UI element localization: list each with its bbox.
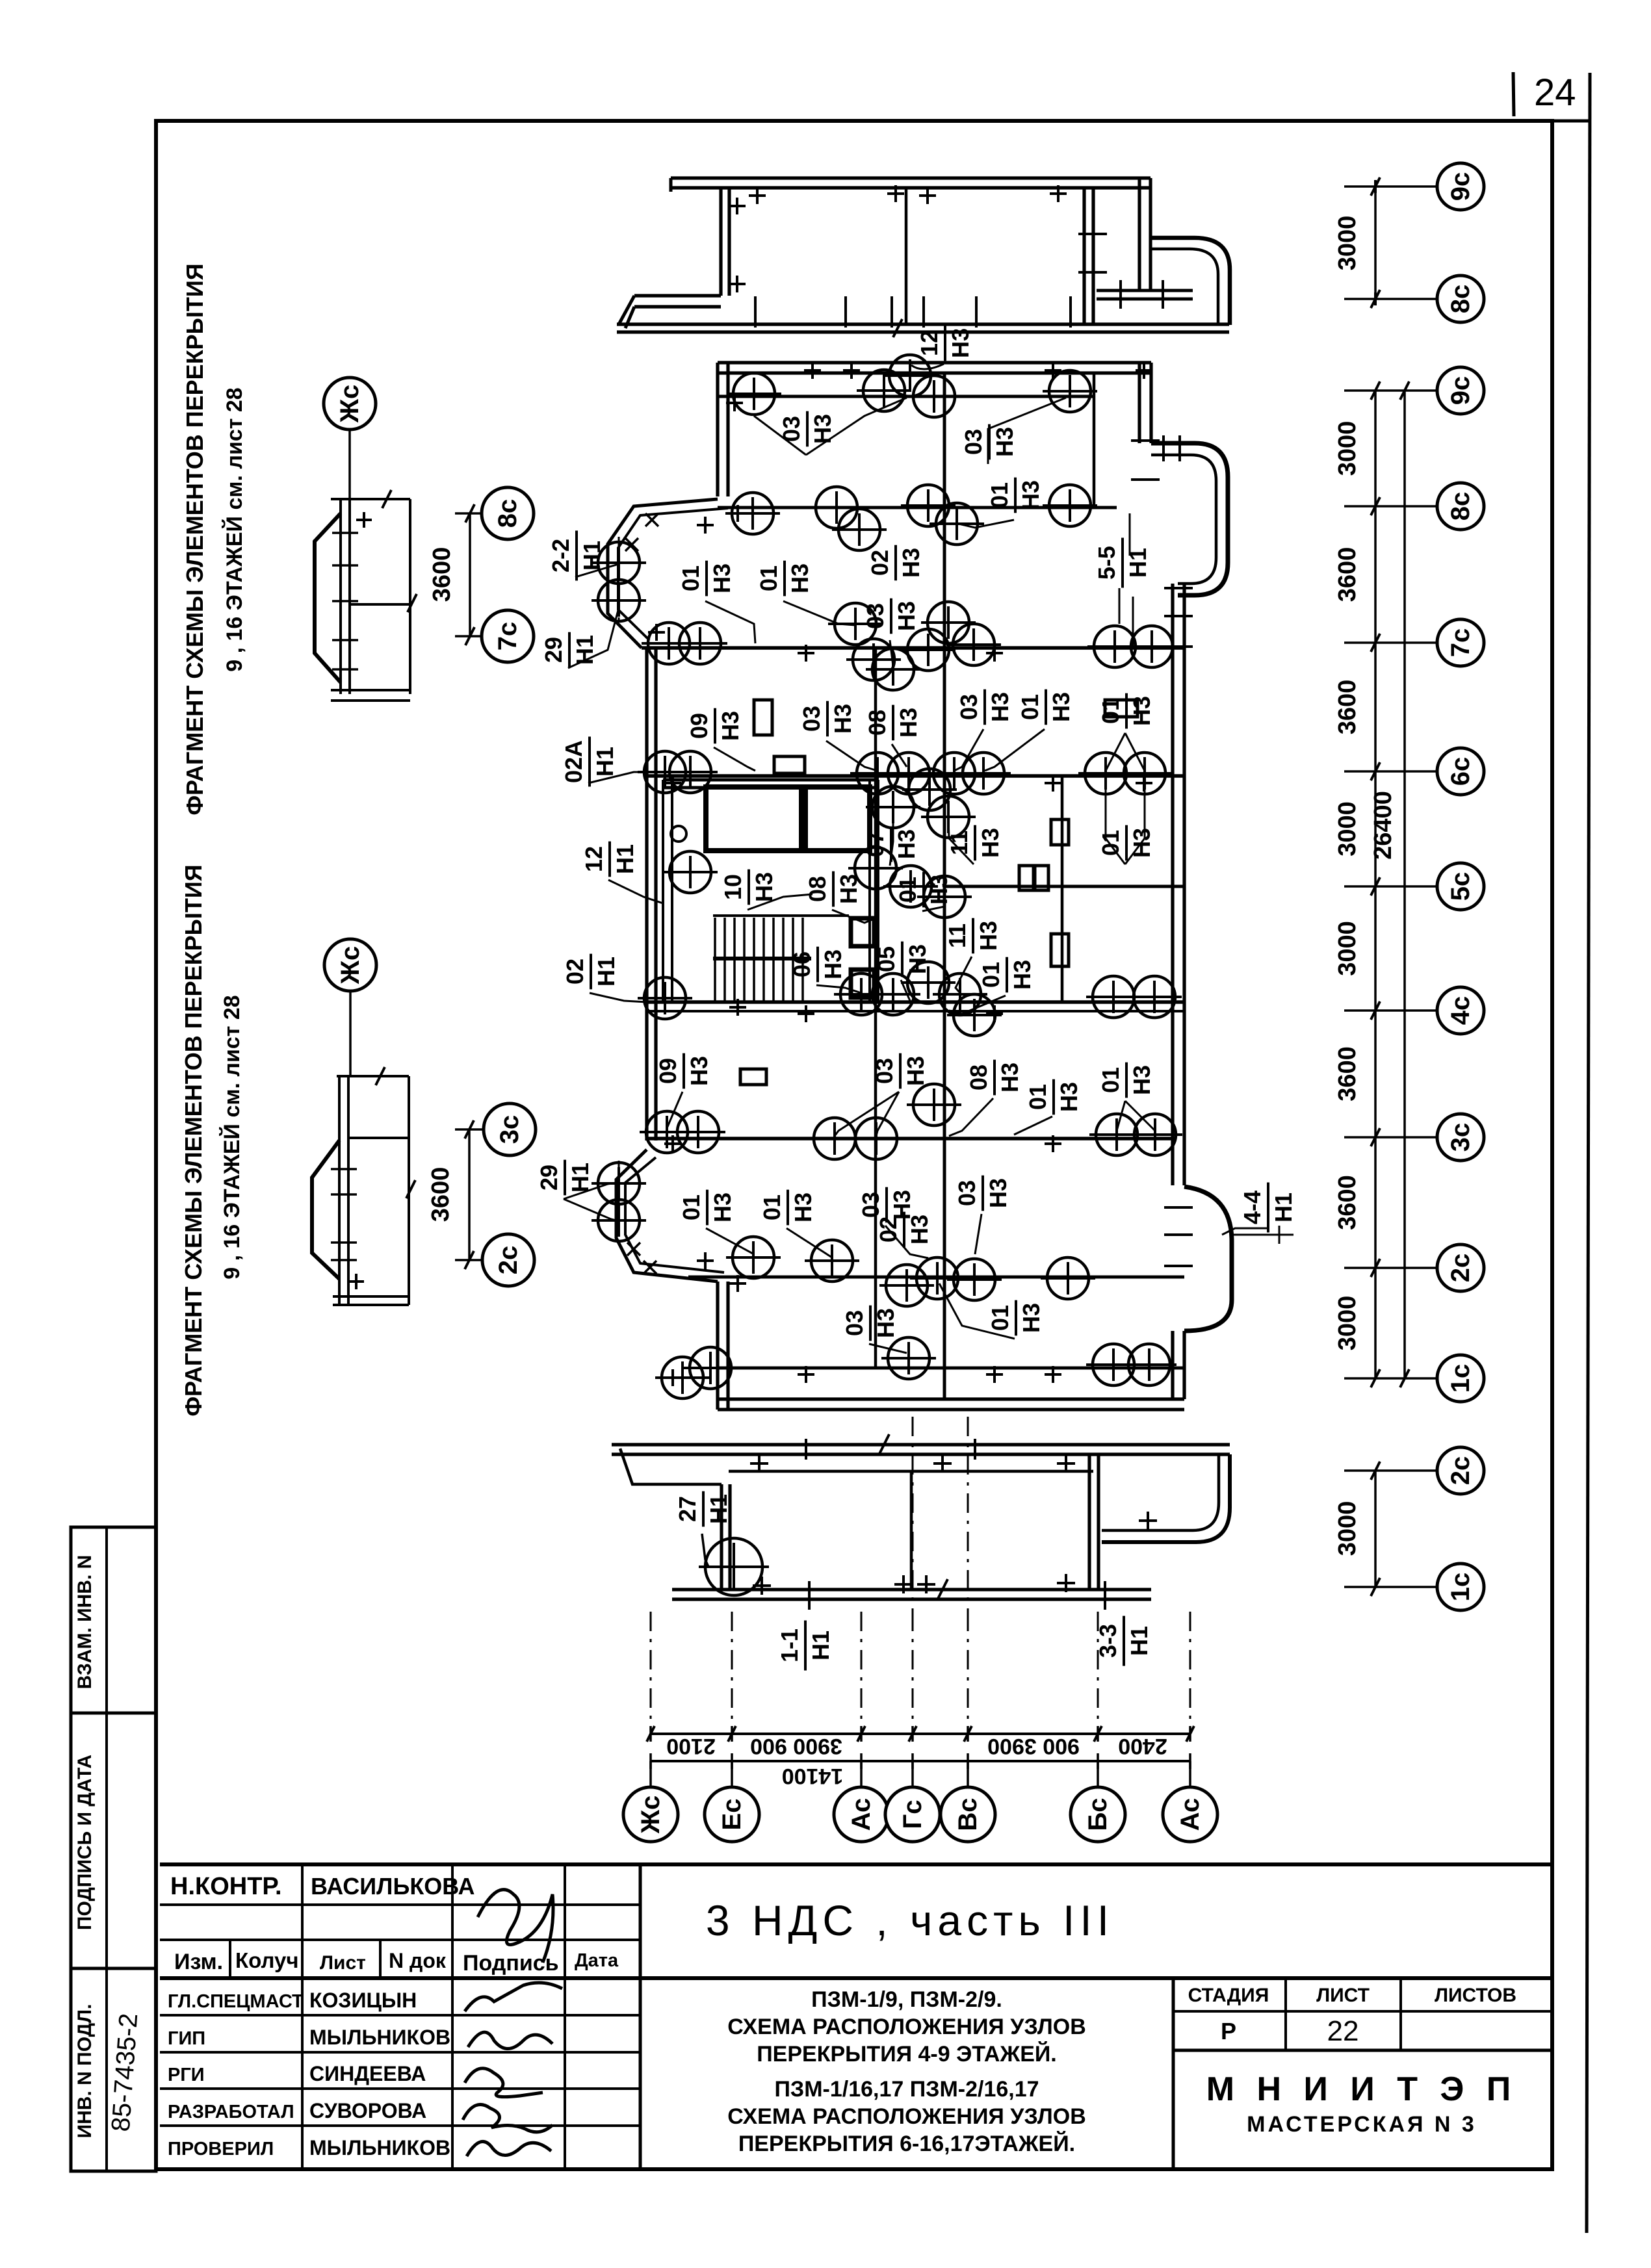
label 5-5/Н1 [1093, 538, 1151, 588]
top section left wall [721, 188, 729, 296]
axis circle Жс [623, 1787, 678, 1842]
axis circle 8c top fragment [1437, 276, 1484, 322]
svg-text:М Н И И Т Э П: М Н И И Т Э П [1206, 2070, 1517, 2108]
label 03/Н3 [960, 424, 1018, 460]
svg-text:Н1: Н1 [705, 1494, 732, 1524]
svg-text:03: 03 [960, 429, 987, 455]
svg-text:03: 03 [954, 1180, 980, 1206]
page number tick [1513, 72, 1514, 116]
svg-text:ФРАГМЕНТ СХЕМЫ ЭЛЕМЕНТОВ ПЕРЕК: ФРАГМЕНТ СХЕМЫ ЭЛЕМЕНТОВ ПЕРЕКРЫТИЯ [181, 263, 208, 815]
drawing frame border [156, 121, 1552, 2169]
svg-text:2100: 2100 [666, 1734, 716, 1759]
label 01/Н3 [987, 1300, 1045, 1336]
label 01/Н3 [1024, 1079, 1082, 1115]
svg-text:Н3: Н3 [686, 1056, 712, 1086]
svg-text:05: 05 [873, 946, 900, 972]
svg-text:Н3: Н3 [898, 548, 924, 578]
svg-text:03: 03 [862, 603, 889, 629]
label 01/Н3 [759, 1190, 816, 1226]
svg-text:Н3: Н3 [926, 875, 952, 905]
axis circle 8c [1437, 483, 1484, 530]
axis circle Вс [941, 1787, 995, 1842]
svg-text:Н3: Н3 [872, 1308, 899, 1338]
label 01/Н3 [755, 561, 813, 597]
bottom dim lines [651, 1733, 1190, 1735]
wall row 9c [718, 395, 1094, 398]
svg-text:8c: 8c [1446, 492, 1475, 521]
fragment 1 chamfer [315, 513, 341, 682]
label 03/Н3 [871, 1053, 929, 1089]
axis leader 4c [1344, 1009, 1437, 1012]
svg-text:3c: 3c [1446, 1123, 1475, 1152]
svg-text:Ес: Ес [718, 1799, 746, 1831]
svg-text:Дата: Дата [575, 1950, 619, 1971]
svg-text:Н1: Н1 [591, 747, 618, 777]
svg-text:Н3: Н3 [1018, 1303, 1045, 1333]
fragment 2 axis Жс [324, 939, 376, 991]
axis circle 9c top fragment [1437, 163, 1484, 210]
axis leader 1c [1344, 1586, 1437, 1588]
leader lines [806, 398, 907, 455]
svg-text:Н3: Н3 [985, 1178, 1011, 1208]
svg-text:07: 07 [862, 831, 889, 857]
label 01/Н3 [1097, 1063, 1155, 1098]
svg-text:01: 01 [1097, 1067, 1124, 1093]
label 11/Н3 [946, 825, 1004, 861]
interior vertical x1683 [1093, 374, 1096, 508]
label 08/Н3 [965, 1060, 1023, 1096]
svg-text:Н3: Н3 [751, 872, 777, 902]
axis circle Ес [705, 1787, 759, 1842]
label 29/Н1 [536, 1160, 593, 1196]
svg-text:Н3: Н3 [790, 1192, 816, 1222]
svg-text:24: 24 [1534, 71, 1576, 114]
svg-text:Жс: Жс [335, 385, 364, 423]
label 01/Н3 [1097, 825, 1155, 861]
svg-text:01: 01 [978, 962, 1004, 988]
svg-text:26400: 26400 [1370, 791, 1397, 860]
bottom section ticks [753, 1577, 771, 1595]
svg-text:Н3: Н3 [1128, 828, 1155, 858]
svg-text:3 НДС , часть III: 3 НДС , часть III [706, 1896, 1114, 1944]
axis leader 3c [1344, 1136, 1437, 1139]
svg-text:ПЗМ-1/16,17 ПЗМ-2/16,17: ПЗМ-1/16,17 ПЗМ-2/16,17 [774, 2077, 1039, 2102]
label 4-4/Н1 [1239, 1183, 1297, 1233]
label 01/Н3 [677, 561, 735, 597]
label 12/Н3 [916, 326, 974, 361]
label 07/Н3 [862, 827, 920, 862]
svg-text:СХЕМА РАСПОЛОЖЕНИЯ УЗЛОВ: СХЕМА РАСПОЛОЖЕНИЯ УЗЛОВ [727, 2104, 1086, 2129]
svg-text:Н1: Н1 [1270, 1192, 1297, 1222]
svg-text:Н3: Н3 [987, 692, 1013, 722]
svg-text:3600: 3600 [1334, 1175, 1361, 1230]
svg-text:11: 11 [946, 831, 972, 855]
svg-text:Н3: Н3 [975, 921, 1002, 951]
axis circle 1c [1437, 1355, 1484, 1402]
svg-text:Ас: Ас [1176, 1798, 1204, 1831]
svg-text:3с: 3с [495, 1115, 524, 1144]
svg-text:1c: 1c [1446, 1364, 1475, 1393]
svg-text:Н3: Н3 [893, 829, 920, 859]
svg-text:ГЛ.СПЕЦМАСТ: ГЛ.СПЕЦМАСТ [168, 1991, 304, 2012]
axis circle 2c bottom fragment [1437, 1447, 1484, 1494]
svg-text:СТАДИЯ: СТАДИЯ [1188, 1985, 1269, 2006]
svg-text:3900 900: 3900 900 [750, 1734, 842, 1759]
label 02/Н3 [875, 1212, 933, 1248]
svg-text:Н3: Н3 [835, 874, 862, 904]
svg-text:МАСТЕРСКАЯ N 3: МАСТЕРСКАЯ N 3 [1247, 2112, 1477, 2137]
section marks 1-1 3-3 [776, 1621, 834, 1671]
svg-text:Н1: Н1 [1126, 1626, 1152, 1656]
svg-text:Н1: Н1 [593, 957, 619, 986]
svg-text:ВАСИЛЬКОВА: ВАСИЛЬКОВА [311, 1873, 475, 1900]
fragment 1 walls [331, 498, 410, 500]
svg-text:01: 01 [755, 565, 782, 591]
svg-text:Н3: Н3 [895, 708, 922, 738]
svg-text:Н3: Н3 [996, 1063, 1023, 1092]
chamfer axis lines [618, 537, 620, 626]
svg-text:3600: 3600 [1334, 547, 1361, 602]
axis leader 8c [1344, 298, 1437, 300]
svg-text:Н3: Н3 [786, 563, 813, 593]
svg-text:02: 02 [866, 550, 893, 576]
svg-text:8с: 8с [493, 499, 522, 528]
svg-text:Жс: Жс [636, 1796, 665, 1834]
axis leader 9c [1344, 185, 1437, 188]
axis leader 9c [1344, 389, 1437, 392]
svg-text:01: 01 [894, 877, 921, 903]
svg-text:1c: 1c [1446, 1573, 1475, 1602]
label 09/Н3 [686, 708, 744, 744]
label 01/Н3 [978, 957, 1035, 993]
svg-text:8c: 8c [1446, 285, 1475, 314]
label 29/Н1 [540, 632, 598, 668]
top section top wall [671, 178, 1150, 188]
bottom section outline [612, 1445, 1230, 1454]
svg-text:01: 01 [678, 1194, 705, 1220]
svg-text:12: 12 [916, 330, 942, 356]
svg-text:01: 01 [1097, 698, 1124, 724]
wall 5c partial [944, 885, 1184, 888]
label 2-2/Н1 [547, 531, 605, 581]
stair flight hatch [713, 916, 849, 1001]
axis circle Ас [1163, 1787, 1217, 1842]
svg-text:2c: 2c [1446, 1456, 1475, 1486]
svg-text:3600: 3600 [1334, 1046, 1361, 1102]
svg-text:Лист: Лист [320, 1952, 366, 1974]
svg-text:Ас: Ас [847, 1798, 876, 1831]
vent blocks [754, 700, 772, 735]
fragment 2 ticks [331, 1168, 357, 1170]
axis circle 7c [1437, 619, 1484, 666]
svg-text:Н3: Н3 [947, 328, 974, 358]
main dim line with ticks [1374, 391, 1377, 1378]
top section right wall [1084, 188, 1093, 324]
top section ticks [749, 187, 766, 204]
svg-text:Н3: Н3 [1017, 480, 1044, 510]
svg-text:Гс: Гс [898, 1800, 927, 1829]
svg-text:Н3: Н3 [991, 427, 1018, 457]
label 01/Н3 [986, 478, 1044, 513]
label 02А/Н1 [560, 737, 618, 787]
sheet outer edge right [1587, 73, 1590, 2233]
svg-text:ИНВ. N ПОДЛ.: ИНВ. N ПОДЛ. [74, 2004, 96, 2139]
label 01/Н3 [678, 1190, 736, 1226]
svg-text:Н3: Н3 [902, 1056, 929, 1086]
axis circle 5c [1437, 863, 1484, 910]
svg-text:01: 01 [1024, 1084, 1051, 1110]
svg-text:5c: 5c [1446, 872, 1475, 901]
svg-text:09: 09 [686, 713, 712, 739]
svg-text:Жс: Жс [336, 946, 365, 985]
svg-text:КОЗИЦЫН: КОЗИЦЫН [309, 1989, 417, 2012]
axis leader 5c [1344, 885, 1437, 888]
fragment 1 axes 8c 7c [482, 487, 534, 539]
stair shaft [663, 780, 672, 1002]
svg-text:Н3: Н3 [708, 563, 735, 593]
svg-text:Н3: Н3 [1128, 1065, 1155, 1095]
svg-text:РАЗРАБОТАЛ: РАЗРАБОТАЛ [168, 2102, 294, 2122]
label 01/Н3 [1097, 693, 1155, 729]
svg-text:900 3900: 900 3900 [987, 1734, 1080, 1759]
svg-text:9c: 9c [1446, 376, 1475, 406]
svg-text:03: 03 [871, 1058, 898, 1084]
svg-text:02: 02 [875, 1217, 902, 1243]
svg-text:Н3: Н3 [1056, 1082, 1082, 1112]
svg-text:СХЕМА РАСПОЛОЖЕНИЯ УЗЛОВ: СХЕМА РАСПОЛОЖЕНИЯ УЗЛОВ [727, 2015, 1086, 2039]
svg-text:Н3: Н3 [906, 1215, 933, 1244]
elevator shafts [851, 918, 874, 946]
svg-text:12: 12 [580, 846, 607, 872]
svg-text:27: 27 [674, 1496, 701, 1522]
label 05/Н3 [873, 942, 931, 977]
svg-text:3600: 3600 [427, 1167, 454, 1222]
svg-text:01: 01 [1017, 694, 1043, 720]
svg-text:Подпись: Подпись [463, 1951, 559, 1976]
svg-text:5-5: 5-5 [1093, 546, 1120, 580]
svg-text:Н3: Н3 [820, 949, 846, 979]
label 11/Н3 [944, 918, 1002, 954]
svg-text:3600: 3600 [428, 547, 456, 602]
stage table [1173, 2010, 1552, 2013]
label 03/Н3 [862, 599, 920, 634]
label 03/Н3 [955, 689, 1013, 725]
label 08/Н3 [864, 705, 922, 741]
wall 3c [647, 1137, 1173, 1140]
svg-text:Н1: Н1 [612, 844, 638, 874]
svg-text:09: 09 [655, 1058, 681, 1084]
label 03/Н3 [857, 1187, 915, 1223]
svg-text:Вс: Вс [954, 1798, 982, 1831]
axis circle 2c [1437, 1244, 1484, 1291]
svg-text:Н3: Н3 [904, 944, 931, 974]
left bay window 2 [616, 1150, 718, 1282]
bottom section node 27 [699, 1538, 769, 1595]
axis circle 9c [1437, 367, 1484, 414]
label 03/Н3 [841, 1306, 899, 1341]
svg-text:ПЕРЕКРЫТИЯ 6-16,17ЭТАЖЕЙ.: ПЕРЕКРЫТИЯ 6-16,17ЭТАЖЕЙ. [738, 2131, 1075, 2156]
top section left wing [634, 296, 721, 307]
svg-text:7с: 7с [493, 622, 522, 651]
label 02/Н1 [562, 954, 619, 990]
wall row 2c [688, 1276, 1184, 1279]
wall 7c [642, 646, 1184, 650]
wall 6c [647, 774, 1184, 778]
axis circle Бс [1071, 1787, 1125, 1842]
svg-text:3000: 3000 [1334, 921, 1361, 976]
bottom section right bay [1102, 1454, 1230, 1542]
svg-text:01: 01 [987, 1305, 1013, 1331]
svg-text:Н3: Н3 [1128, 696, 1155, 726]
interior vertical x1347 [874, 648, 877, 1368]
svg-text:Н3: Н3 [977, 828, 1004, 858]
svg-text:Р: Р [1221, 2018, 1236, 2044]
node circles [727, 373, 781, 415]
dim line bottom fragment 3000 [1374, 1471, 1377, 1587]
top section right part [1139, 178, 1150, 290]
svg-text:01: 01 [1097, 830, 1124, 856]
svg-text:МЫЛЬНИКОВ: МЫЛЬНИКОВ [309, 2026, 450, 2049]
svg-text:ПЗМ-1/9, ПЗМ-2/9.: ПЗМ-1/9, ПЗМ-2/9. [811, 1987, 1002, 2012]
svg-text:08: 08 [804, 876, 831, 902]
top section divider [905, 188, 908, 324]
svg-text:ЛИСТ: ЛИСТ [1316, 1985, 1370, 2006]
axis dash lines [650, 1612, 652, 1734]
bottom section rooms [729, 1470, 1093, 1473]
wall 4c [647, 1000, 1184, 1004]
svg-text:ПОДПИСЬ И ДАТА: ПОДПИСЬ И ДАТА [74, 1755, 96, 1930]
svg-text:СИНДЕЕВА: СИНДЕЕВА [309, 2062, 426, 2085]
label 02/Н3 [866, 545, 924, 581]
fragment 1 axis Жс [324, 378, 376, 430]
svg-text:6c: 6c [1446, 757, 1475, 786]
label 08/Н3 [804, 871, 862, 907]
svg-text:3600: 3600 [1334, 680, 1361, 735]
interior vertical x1634 [1061, 776, 1064, 1002]
svg-text:Н3: Н3 [809, 414, 836, 444]
axis circle 1c bottom fragment [1437, 1564, 1484, 1610]
svg-text:2с: 2с [494, 1246, 523, 1275]
axis leader 1c [1344, 1377, 1437, 1380]
svg-text:Бс: Бс [1084, 1798, 1112, 1831]
fragment 1 ticks [332, 532, 358, 534]
svg-text:29: 29 [536, 1165, 562, 1191]
axis leader 7c [1344, 641, 1437, 644]
svg-text:29: 29 [540, 637, 567, 663]
svg-text:ФРАГМЕНТ СХЕМЫ ЭЛЕМЕНТОВ ПЕРЕК: ФРАГМЕНТ СХЕМЫ ЭЛЕМЕНТОВ ПЕРЕКРЫТИЯ [180, 864, 207, 1416]
svg-text:2400: 2400 [1118, 1734, 1167, 1759]
overall dim 26400 [1403, 391, 1406, 1378]
svg-text:Н3: Н3 [717, 711, 744, 741]
dim line top fragment 3000 [1374, 187, 1377, 299]
svg-text:Н3: Н3 [1009, 960, 1035, 990]
label 12/Н1 [580, 842, 638, 877]
corridor wall [943, 374, 946, 1399]
title block grid [160, 1864, 1552, 2169]
svg-text:ГИП: ГИП [168, 2028, 205, 2049]
svg-text:Н3: Н3 [709, 1192, 736, 1222]
svg-text:N док: N док [389, 1949, 447, 1972]
svg-text:Н1: Н1 [578, 541, 605, 571]
svg-text:1-1: 1-1 [776, 1629, 803, 1662]
svg-text:СУВОРОВА: СУВОРОВА [309, 2099, 426, 2122]
fragment 2 chamfer [312, 1140, 339, 1279]
axis circle Ас [834, 1787, 889, 1842]
svg-text:МЫЛЬНИКОВ: МЫЛЬНИКОВ [309, 2136, 450, 2159]
label 10/Н3 [720, 870, 777, 905]
axis circle Гс [885, 1787, 940, 1842]
svg-text:01: 01 [759, 1194, 785, 1220]
svg-text:03: 03 [778, 416, 805, 442]
wall row 1c [718, 1367, 1184, 1370]
sidebar box [71, 1527, 156, 2171]
axis leader 2c [1344, 1469, 1437, 1472]
svg-text:06: 06 [788, 951, 815, 977]
label 09/Н3 [655, 1053, 712, 1089]
signatures crew [465, 1983, 562, 2011]
stair windows [706, 787, 801, 851]
fragment 2 axes 3c 2c [484, 1103, 536, 1155]
svg-text:01: 01 [986, 482, 1013, 508]
left bay window 1 [608, 499, 718, 648]
svg-text:ЛИСТОВ: ЛИСТОВ [1435, 1985, 1516, 2006]
svg-text:ПРОВЕРИЛ: ПРОВЕРИЛ [168, 2139, 274, 2159]
svg-text:22: 22 [1327, 2015, 1359, 2047]
door circle [671, 826, 686, 842]
svg-text:Н1: Н1 [807, 1630, 834, 1660]
wall row 8c [718, 506, 1117, 509]
svg-text:03: 03 [798, 706, 825, 732]
svg-text:РГИ: РГИ [168, 2065, 205, 2085]
svg-text:03: 03 [955, 694, 982, 720]
axis circle 6c [1437, 748, 1484, 795]
svg-text:4-4: 4-4 [1239, 1191, 1266, 1224]
svg-text:7c: 7c [1446, 628, 1475, 658]
axis leader 2c [1344, 1267, 1437, 1269]
svg-text:Колуч: Колуч [235, 1948, 299, 1972]
label 01/Н3 [894, 872, 952, 908]
svg-text:9 , 16 ЭТАЖЕЙ см. лист 28: 9 , 16 ЭТАЖЕЙ см. лист 28 [222, 387, 247, 671]
svg-text:ВЗАМ. ИНВ. N: ВЗАМ. ИНВ. N [74, 1555, 96, 1690]
svg-text:3000: 3000 [1334, 801, 1361, 857]
svg-text:3000: 3000 [1334, 1296, 1361, 1351]
svg-text:3000: 3000 [1334, 1501, 1361, 1556]
right bay round (8c-7c) [1151, 443, 1228, 595]
svg-text:03: 03 [841, 1310, 868, 1336]
svg-text:14100: 14100 [782, 1764, 844, 1788]
label 03/Н3 [954, 1176, 1011, 1211]
svg-text:08: 08 [864, 710, 890, 736]
plan wall ticks [726, 394, 743, 411]
axis leader 8c [1344, 505, 1437, 508]
svg-text:Н3: Н3 [829, 704, 856, 734]
label 06/Н3 [788, 947, 846, 983]
svg-text:4c: 4c [1446, 996, 1475, 1025]
right bay round (4c-3c) [1184, 1187, 1232, 1331]
svg-text:02А: 02А [560, 740, 587, 783]
svg-text:3000: 3000 [1334, 421, 1361, 476]
svg-text:11: 11 [944, 923, 970, 948]
svg-text:Н1: Н1 [1124, 548, 1151, 578]
svg-text:Н1: Н1 [567, 1163, 593, 1192]
svg-text:02: 02 [562, 959, 588, 985]
svg-text:10: 10 [720, 874, 746, 900]
svg-text:9 , 16 ЭТАЖЕЙ см. лист 28: 9 , 16 ЭТАЖЕЙ см. лист 28 [219, 995, 244, 1279]
label 01/Н3 [1017, 689, 1074, 725]
svg-text:Н3: Н3 [893, 601, 920, 631]
svg-text:2-2: 2-2 [547, 539, 574, 573]
top section right bay [1150, 238, 1230, 325]
